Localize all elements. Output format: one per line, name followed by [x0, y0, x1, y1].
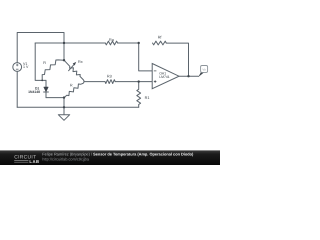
svg-text:1 V: 1 V	[23, 65, 29, 69]
op-amp OA1 triangle	[152, 64, 179, 89]
svg-text:1N4148: 1N4148	[28, 90, 40, 94]
junction dot top feed crossing	[63, 42, 65, 44]
probe Vo box	[201, 66, 208, 73]
resistor Ra	[105, 41, 117, 45]
wire bottom-left of bridge (diode to bottom node)	[46, 97, 64, 99]
svg-text:R: R	[43, 61, 46, 65]
voltage source V1 plus sign	[16, 64, 18, 66]
variable resistor arrow shaft for Rx	[69, 64, 75, 71]
probe Vo pointer tail	[198, 72, 204, 77]
diode D1 vertical leads	[45, 80, 47, 97]
resistor R1 vertical with stubs	[137, 82, 141, 108]
footer CircuitLab logo word LAB with dashes	[14, 161, 28, 163]
resistor R bottom-right arm of bridge	[64, 82, 84, 98]
wire R3 to op-amp plus input	[115, 81, 152, 83]
svg-text:http://circuitlab.com/c9cjjba: http://circuitlab.com/c9cjjba	[42, 157, 90, 162]
ground symbol stub and triangle	[58, 107, 69, 120]
wire op-amp output to probe	[179, 75, 198, 77]
svg-text:LAB: LAB	[29, 159, 39, 164]
wire right node to R3	[84, 81, 105, 83]
junction dot left node stub	[41, 80, 43, 82]
wire Ra to inverting node	[118, 42, 139, 44]
diode D1 triangle	[44, 87, 49, 92]
junction dot plus input node	[138, 80, 140, 82]
junction dot inverting node	[138, 42, 140, 44]
op-amp minus input sign	[154, 70, 157, 72]
resistor R3	[105, 80, 115, 84]
variable resistor arrow head for Rx	[73, 62, 77, 66]
resistor R top-left arm of bridge	[42, 60, 64, 81]
wire bridge bottom node to rail	[63, 98, 65, 108]
wire mid input line y=43 left part to Ra	[35, 42, 105, 44]
svg-text:Rx: Rx	[78, 60, 83, 64]
footer bar	[0, 150, 220, 165]
wire Rf to output node (feedback)	[166, 43, 188, 76]
svg-text:R1: R1	[145, 96, 150, 100]
svg-text:R3: R3	[107, 75, 112, 79]
voltage source V1 minus sign	[16, 68, 19, 70]
svg-text:R: R	[70, 84, 73, 88]
junction dot output node	[187, 75, 189, 77]
resistor Rf	[153, 41, 167, 45]
wire V1 negative down to ground rail	[16, 71, 18, 107]
wire from V1 positive up and across top to bridge feed	[17, 33, 64, 63]
junction dot bridge apex	[63, 59, 65, 61]
voltage source V1 circle	[13, 63, 22, 72]
svg-text:Vo: Vo	[202, 68, 206, 72]
wire left branch down to bridge left node	[35, 43, 46, 80]
svg-text:LM741: LM741	[159, 75, 169, 79]
resistor Rx top-right arm of bridge (variable)	[64, 60, 84, 81]
junction dot bridge bottom node	[63, 96, 65, 98]
wire ground rail	[17, 106, 139, 108]
wire inverting node down to op-amp minus input	[139, 43, 153, 71]
junction dot ground rail	[63, 106, 65, 108]
op-amp plus input sign	[154, 80, 157, 83]
diode D1 cathode bar	[44, 91, 49, 93]
